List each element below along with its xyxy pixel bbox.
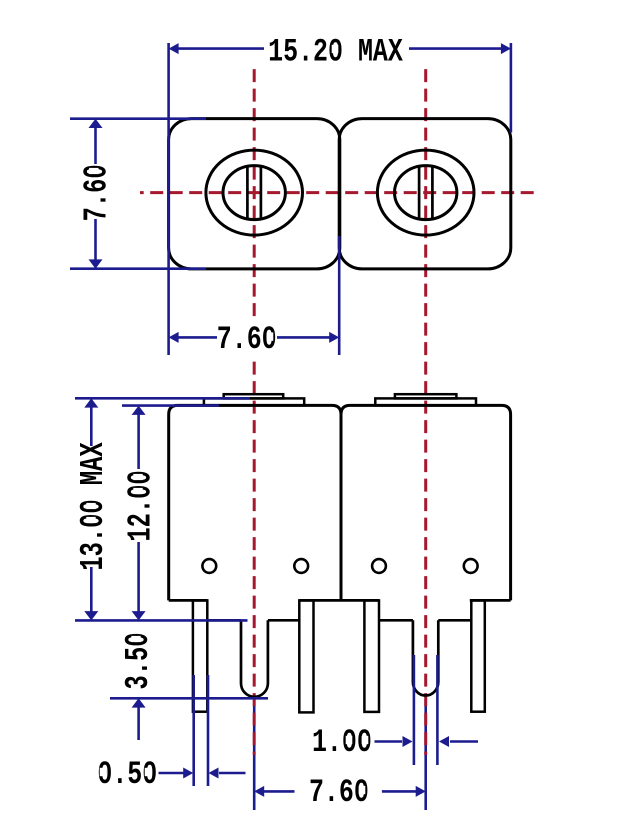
svg-text:12.00: 12.00 [122,470,160,541]
